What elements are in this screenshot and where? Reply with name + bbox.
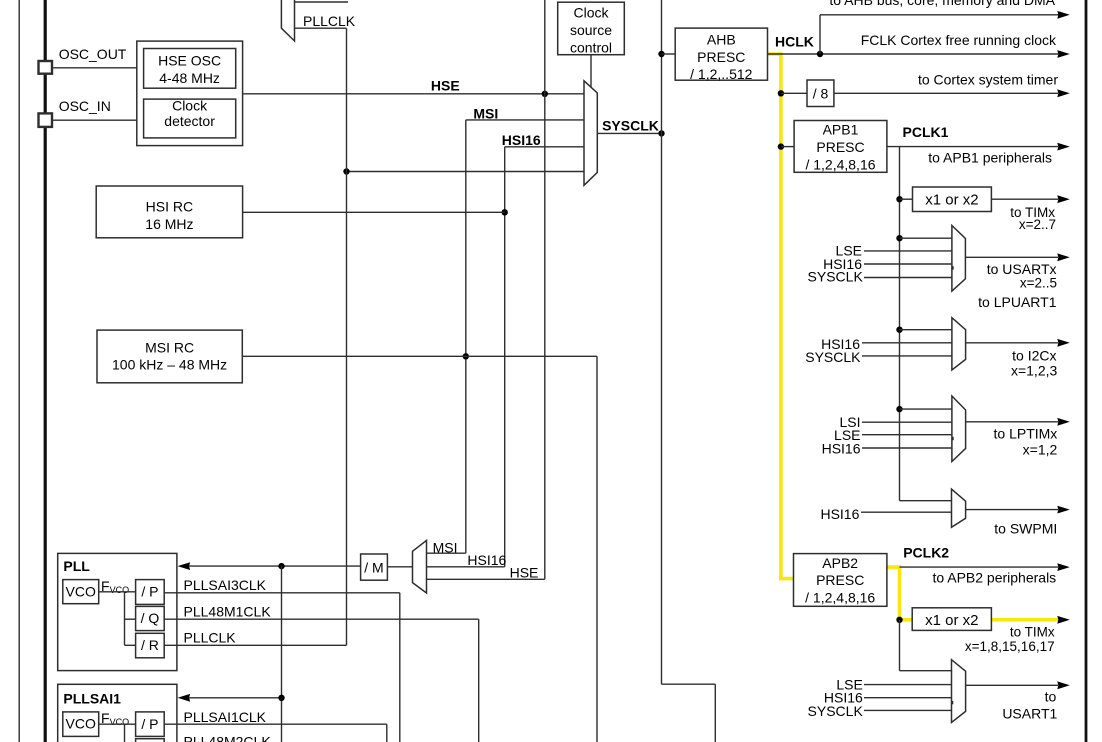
svg-text:VCO: VCO (66, 583, 96, 599)
wire HSI16 to LPTIMx mux (862, 447, 952, 449)
wire HSI16 to SWPMI mux (861, 511, 952, 513)
box VCO (PLL) (63, 580, 99, 604)
svg-text:FCLK Cortex free running clock: FCLK Cortex free running clock (861, 32, 1057, 48)
wire HSE net horizontal (243, 93, 584, 95)
chip boundary left (44, 0, 47, 742)
wire to AHB bus arrow (820, 14, 1059, 16)
svg-text:PRESC: PRESC (816, 572, 864, 588)
wire control to mux (590, 55, 592, 88)
svg-text:x1 or x2: x1 or x2 (925, 612, 978, 629)
svg-text:/ R: / R (141, 637, 159, 653)
svg-text:HSI16: HSI16 (502, 132, 541, 148)
arrow to USART1 (1057, 681, 1070, 689)
wire PCLK1 bend to SWPMI mux (900, 500, 952, 502)
select mark USARTx mux (951, 266, 953, 269)
wire feed /R (125, 644, 136, 646)
wire PCLK2 to USART1 mux (900, 670, 952, 672)
svg-text:PCLK1: PCLK1 (903, 124, 949, 140)
wire divider feed vertical (PLLSAI1) (124, 724, 126, 742)
wire PLL48M1CLK vertical down (478, 619, 480, 742)
wire LPTIMx mux output (966, 421, 1058, 423)
svg-text:HSI16: HSI16 (820, 506, 859, 522)
wire x1 or x2 to TIMx (991, 198, 1058, 200)
svg-text:/ P: / P (141, 584, 158, 600)
arrow to APB2 peripherals (1057, 563, 1070, 571)
wire SYSCLK jog horizontal (662, 683, 716, 685)
divider /R (PLL) (136, 633, 165, 658)
arrow to USARTx (1057, 253, 1070, 261)
wire PCLK1 vertical (899, 147, 901, 501)
wire SWPMI mux output (966, 509, 1058, 511)
svg-text:VCO: VCO (66, 716, 96, 732)
svg-text:SYSCLK: SYSCLK (808, 703, 864, 719)
wire HSE into PLL mux (427, 578, 545, 580)
wire branch up to AHB bus arrow (819, 15, 821, 54)
box HSE oscillator outer (137, 41, 243, 146)
junction SYSCLK to AHB PRESC (658, 51, 664, 57)
svg-text:to LPTIMx: to LPTIMx (994, 425, 1058, 441)
wire SYSCLK vertical (661, 0, 663, 684)
wire USARTx mux output (965, 256, 1058, 258)
arrow FCLK (1057, 50, 1070, 58)
junction PCLK1 to x1 or x2 (896, 196, 902, 202)
svg-text:Clock: Clock (172, 98, 208, 114)
svg-text:to TIMx: to TIMx (1010, 624, 1055, 639)
svg-text:x1 or x2: x1 or x2 (925, 192, 978, 209)
box HSI RC 16 MHz (96, 186, 242, 238)
wire to /8 box (781, 92, 807, 94)
wire MSI into PLL mux (427, 552, 466, 554)
junction HCLK to APB1 PRESC (778, 143, 784, 149)
svg-text:/ Q: / Q (141, 610, 160, 626)
wire USART1 mux output (966, 684, 1058, 686)
wire PLLCLK vertical (346, 28, 348, 645)
svg-text:Clock: Clock (573, 5, 609, 21)
junction HCLK branch (817, 51, 823, 57)
wire PLLSAI3CLK (164, 592, 400, 594)
arrow to I2Cx (1057, 339, 1070, 347)
box PLLSAI1 (58, 684, 177, 742)
svg-text:to I2Cx: to I2Cx (1012, 347, 1056, 363)
mux PLL source select (413, 540, 427, 593)
box APB1 PRESC (794, 121, 887, 173)
svg-text:/ 8: / 8 (813, 85, 829, 101)
svg-text:PRESC: PRESC (697, 49, 745, 65)
wire MSI horizontal to SYSCLK mux (466, 119, 584, 121)
svg-text:SYSCLK: SYSCLK (602, 117, 659, 133)
svg-text:HSE: HSE (431, 78, 460, 94)
box x1 or x2 (APB1) (913, 187, 992, 212)
select mark LPTIMx mux (951, 437, 953, 440)
highlighted APB2 PRESC output (yellow) (887, 567, 912, 620)
junction PCLK1 to I2Cx mux (896, 327, 902, 333)
page border left (18, 0, 20, 742)
svg-text:HSI16: HSI16 (467, 552, 506, 568)
mux MCO (partial) (281, 0, 294, 41)
svg-text:PLLSAI3CLK: PLLSAI3CLK (184, 577, 267, 593)
wire HSI16 horizontal to SYSCLK mux (505, 146, 584, 148)
wire PCLK2 vertical to USART1 mux (899, 620, 901, 671)
svg-text:SYSCLK: SYSCLK (808, 269, 864, 285)
wire MSI RC output (242, 355, 597, 357)
mux SYSCLK source select (584, 81, 597, 186)
wire /8 to Cortex system timer (834, 92, 1058, 94)
wire MCO mux input stub (295, 1, 349, 3)
svg-text:PLL: PLL (63, 558, 90, 574)
pin OSC_IN (39, 113, 53, 127)
wire PLL input vertical (281, 566, 283, 742)
highlighted HCLK-APB2 path (yellow) (768, 54, 794, 579)
arrow to Cortex system timer (1057, 89, 1070, 97)
junction SYSCLK vertical (658, 130, 664, 136)
arrow to TIMx (APB2) (1057, 616, 1070, 624)
svg-text:100 kHz – 48 MHz: 100 kHz – 48 MHz (112, 357, 227, 373)
wire HSI16 vertical (504, 147, 506, 567)
wire to APB1 PRESC (781, 146, 794, 148)
svg-text:PLLSAI1CLK: PLLSAI1CLK (184, 709, 267, 725)
box PLL (58, 553, 177, 670)
wire HSI16 to USART1 mux (864, 697, 952, 699)
svg-text:source: source (570, 22, 612, 38)
wire SYSCLK to USART1 mux (864, 709, 952, 711)
wire PCLK2 row (900, 566, 1059, 568)
mux I2Cx clock select (952, 318, 966, 370)
divider /Q (PLL) (136, 606, 165, 630)
wire PLLCLK output (164, 644, 346, 646)
wire PLLSAI1CLK vertical down (386, 724, 388, 742)
svg-text:to SWPMI: to SWPMI (994, 520, 1057, 536)
svg-text:AHB: AHB (707, 32, 736, 48)
divider /P (PLLSAI1) (136, 712, 165, 737)
wire PLLCLK to MCO mux (295, 27, 347, 29)
junction PLLCLK branch (343, 168, 349, 174)
wire PCLK1 to LPTIMx mux (900, 408, 952, 410)
wire HSI16 to I2Cx mux (862, 342, 952, 344)
wire PLLCLK horizontal to SYSCLK mux (347, 171, 585, 173)
wire HSI16 to USARTx mux (864, 263, 952, 265)
junction PCLK1 to LPTIMx mux (896, 406, 902, 412)
arrow into PLL (178, 562, 191, 570)
junction HSI RC output (502, 209, 508, 215)
junction PCLK1 to USARTx mux (896, 235, 902, 241)
svg-text:x=1,2,3: x=1,2,3 (1011, 362, 1058, 378)
wire HSE vertical to PLL source mux (544, 0, 546, 579)
svg-text:4-48 MHz: 4-48 MHz (159, 70, 220, 86)
wire mux to /M (387, 566, 412, 568)
wire OSC_OUT to HSE OSC (52, 67, 137, 69)
arrow to AHB bus (1057, 11, 1070, 19)
junction HCLK to /8 (778, 90, 784, 96)
junction PLLSAI1 input branch (278, 695, 284, 701)
svg-text:USART1: USART1 (1002, 706, 1057, 722)
svg-text:16 MHz: 16 MHz (145, 216, 193, 232)
arrow to SWPMI (1057, 506, 1070, 514)
box AHB PRESC (675, 28, 767, 80)
wire PCLK1 row (887, 146, 1058, 148)
svg-text:PLLCLK: PLLCLK (184, 629, 237, 645)
wire MSI vertical (465, 120, 467, 553)
svg-text:x=2..7: x=2..7 (1019, 217, 1056, 232)
wire LSE to LPTIMx mux (862, 434, 952, 436)
box Clock detector (144, 99, 236, 138)
svg-text:/ 1,2,4,8,16: / 1,2,4,8,16 (805, 156, 875, 172)
wire VCO to /P (PLLSAI1) (99, 723, 136, 725)
svg-text:HSE: HSE (510, 565, 539, 581)
wire HSI RC output (243, 211, 505, 213)
svg-text:to Cortex system timer: to Cortex system timer (918, 72, 1058, 88)
wire /M to PLL (189, 565, 361, 567)
junction MSI RC output (463, 353, 469, 359)
pin OSC_OUT (39, 61, 53, 74)
arrow into PLLSAI1 (178, 694, 191, 702)
svg-text:APB2: APB2 (822, 555, 858, 571)
svg-text:/ M: / M (364, 560, 383, 576)
mux USART1 clock select (952, 660, 966, 723)
svg-text:SYSCLK: SYSCLK (805, 349, 861, 365)
wire PLL48M1CLK (164, 618, 479, 620)
svg-text:control: control (570, 39, 612, 55)
wire LSI to LPTIMx mux (862, 421, 952, 423)
svg-text:PLLCLK: PLLCLK (303, 13, 356, 29)
svg-text:PLL48M1CLK: PLL48M1CLK (184, 603, 272, 619)
divider /P (PLL) (136, 580, 165, 605)
wire HCLK row (768, 53, 1059, 55)
wire SYSCLK to AHB PRESC (662, 53, 676, 55)
arrow to LPTIMx (1057, 418, 1070, 426)
divider /8 (807, 80, 834, 107)
svg-text:/ P: / P (141, 716, 158, 732)
wire to x1 or x2 (900, 198, 913, 200)
svg-text:x=1,8,15,16,17: x=1,8,15,16,17 (965, 639, 1055, 654)
wire SYSCLK to I2Cx mux (862, 355, 952, 357)
wire OSC_IN to HSE OSC (52, 119, 137, 121)
wire PCLK1 to I2Cx mux (900, 329, 952, 331)
junction HSE / HSE vertical (542, 91, 548, 97)
wire divider feed vertical (PLL) (124, 592, 126, 646)
wire SYSCLK to USARTx mux (864, 277, 952, 279)
svg-text:PCLK2: PCLK2 (903, 545, 949, 561)
svg-text:to APB1 peripherals: to APB1 peripherals (928, 150, 1052, 166)
svg-text:PLLSAI1: PLLSAI1 (63, 691, 121, 707)
svg-text:PLL48M2CLK: PLL48M2CLK (184, 733, 272, 742)
svg-text:/ 1,2,4,8,16: / 1,2,4,8,16 (805, 590, 875, 606)
wire VCO to dividers (99, 591, 136, 593)
box APB2 PRESC (794, 554, 887, 607)
mux SWPMI clock select (952, 489, 966, 527)
svg-text:HSI RC: HSI RC (146, 199, 193, 215)
box MSI RC 100 kHz - 48 MHz (97, 330, 242, 383)
svg-text:to AHB bus, core, memory and D: to AHB bus, core, memory and DMA (829, 0, 1055, 8)
svg-text:MSI RC: MSI RC (145, 340, 194, 356)
wire HSI16 into PLL mux (427, 566, 505, 568)
svg-text:HSI16: HSI16 (822, 440, 861, 456)
wire PLLSAI1CLK (164, 723, 387, 725)
wire LSE to USARTx mux (864, 250, 952, 252)
divider /M (361, 554, 388, 580)
wire to PLLSAI1 input (189, 697, 282, 699)
svg-text:PRESC: PRESC (816, 139, 864, 155)
svg-text:to: to (1045, 688, 1057, 704)
select mark USART1 mux (951, 701, 953, 704)
junction PLL input branch (278, 563, 284, 569)
wire PLLSAI3CLK vertical down (399, 593, 401, 742)
svg-text:HCLK: HCLK (775, 34, 814, 50)
box HSE OSC 4-48 MHz (144, 49, 236, 89)
box VCO (PLLSAI1) (63, 712, 99, 737)
wire MSI RC branch vertical (596, 356, 598, 742)
wire SYSCLK mux output (597, 132, 661, 134)
wire PCLK1 to USARTx mux (900, 237, 952, 239)
svg-text:HSE OSC: HSE OSC (158, 52, 221, 68)
wire SYSCLK jog vertical (714, 684, 716, 742)
svg-text:MSI: MSI (433, 540, 458, 556)
svg-text:detector: detector (164, 113, 215, 129)
mux USARTx clock select (952, 226, 966, 292)
svg-text:to APB2 peripherals: to APB2 peripherals (932, 570, 1056, 586)
junction PCLK2 to x1 or x2 (896, 617, 902, 623)
svg-text:OSC_IN: OSC_IN (59, 98, 111, 114)
svg-text:/ 1,2,..512: / 1,2,..512 (690, 66, 752, 82)
mux LPTIMx clock select (952, 396, 966, 462)
divider /Q (PLLSAI1, clipped) (136, 739, 165, 742)
svg-text:x=2..5: x=2..5 (1020, 275, 1057, 290)
chip boundary right (1085, 0, 1088, 742)
highlighted x1 or x2 to TIMx wire (yellow) (991, 618, 1062, 622)
arrow to APB1 peripherals (1057, 143, 1070, 151)
wire feed /Q (125, 618, 136, 620)
svg-text:OSC_OUT: OSC_OUT (59, 46, 127, 62)
box x1 or x2 (APB2) (912, 608, 991, 631)
box Clock source control (558, 2, 625, 55)
svg-text:x=1,2: x=1,2 (1023, 441, 1058, 457)
svg-text:APB1: APB1 (823, 122, 859, 138)
svg-text:MSI: MSI (473, 106, 498, 122)
arrow to TIMx (APB1) (1057, 195, 1070, 203)
wire LSE to USART1 mux (864, 684, 952, 686)
wire I2Cx mux output (966, 342, 1058, 344)
svg-text:to LPUART1: to LPUART1 (978, 294, 1057, 310)
